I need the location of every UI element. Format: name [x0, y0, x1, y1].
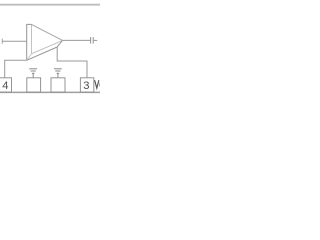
wire vertical from triangle top vertex: [27, 24, 32, 60]
label V+: [95, 80, 99, 88]
node input terminal: [1, 39, 3, 44]
ground G2: [54, 69, 62, 78]
op-amp U1 bottom-left depth edge: [27, 54, 32, 61]
pin box 3: [80, 78, 93, 92]
wire to pin 4: [5, 60, 27, 78]
op-amp U1 apex depth edge: [57, 40, 62, 47]
wire supply to pin 3: [57, 47, 87, 78]
ground G1: [29, 69, 37, 78]
op-amp U1 back bottom edge: [27, 47, 58, 60]
wire output: [63, 39, 91, 41]
svg-text:4: 4: [2, 80, 8, 92]
wire input: [2, 40, 27, 42]
wire output right: [94, 39, 98, 41]
pin box NC right: [51, 78, 65, 92]
pin box 4: [0, 78, 12, 92]
pin box NC left: [27, 78, 41, 92]
capacitor C1: [91, 37, 94, 44]
frame bottom border: [0, 91, 100, 93]
frame top border: [0, 4, 100, 6]
svg-text:3: 3: [83, 80, 89, 92]
op-amp U1 (3D slab, front face): [32, 24, 63, 53]
